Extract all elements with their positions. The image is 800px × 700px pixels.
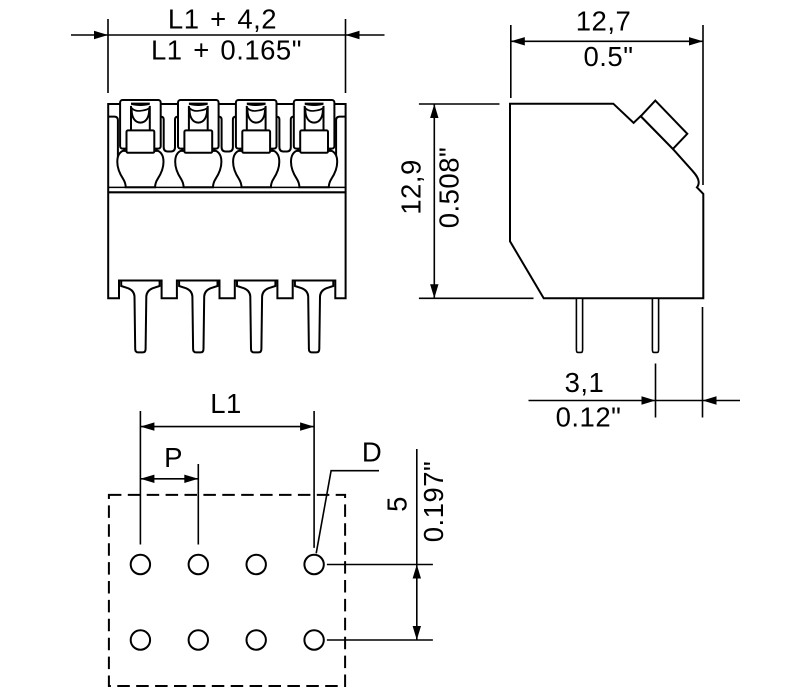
tower 2 <box>178 100 219 149</box>
valley 1-2 <box>161 117 178 152</box>
spring wave 3 <box>247 108 266 111</box>
dim P ext right <box>197 464 199 545</box>
spring wave 1 <box>131 108 150 111</box>
clamp slot black band 2 <box>189 103 208 106</box>
arrow 12,9 bottom <box>430 284 438 298</box>
actuation button <box>641 101 688 149</box>
hole B4 <box>304 630 323 649</box>
arrow 3,1 right <box>703 396 717 404</box>
dim 5 ext row2 <box>327 639 433 641</box>
separation line B <box>108 191 345 193</box>
pole 3 <box>233 100 279 352</box>
dim L1 line <box>140 426 314 428</box>
dim L1+4,2 ext right <box>345 19 347 93</box>
hole B3 <box>247 630 266 649</box>
arrow L1+4,2 right <box>346 31 360 39</box>
arrow 12,7 left <box>511 37 525 45</box>
svg-text:L1: L1 <box>210 388 242 419</box>
pcb outline dashed <box>109 495 345 686</box>
post inner edges 2 <box>189 106 208 130</box>
valley left end <box>108 117 118 158</box>
arrow 3,1 left <box>642 396 656 404</box>
post bottom steps 4 <box>297 149 331 152</box>
pin mount 1 <box>121 281 159 353</box>
svg-text:0.5": 0.5" <box>584 41 634 72</box>
dim L1+4,2 ext left <box>107 19 109 93</box>
side body outline <box>510 104 703 299</box>
clamp U curve 1 <box>132 110 150 123</box>
clamp slot black band 3 <box>247 103 266 106</box>
clamp U curve 4 <box>305 110 323 123</box>
hole A4 <box>304 555 323 574</box>
hole B1 <box>131 630 150 649</box>
dim L1+4,2 line <box>71 34 385 36</box>
pole 1 <box>117 100 163 352</box>
svg-text:L1 + 0.165": L1 + 0.165" <box>151 35 302 66</box>
chest 1 <box>126 130 154 152</box>
separation line A <box>108 186 345 188</box>
dim 12,7 ext left <box>510 25 512 98</box>
vase 1 <box>117 151 163 187</box>
hole A3 <box>247 555 266 574</box>
arrow 12,9 top <box>430 104 438 118</box>
spring wave 2 <box>189 108 208 111</box>
vase 4 <box>291 151 337 187</box>
spring wave 4 <box>305 108 324 111</box>
pin mount 2 <box>179 281 217 353</box>
valley 3-4 <box>276 117 293 152</box>
pin mount 3 <box>237 281 275 353</box>
svg-text:L1 + 4,2: L1 + 4,2 <box>168 4 277 35</box>
svg-text:P: P <box>164 442 183 473</box>
arrow 5 top <box>413 565 421 579</box>
dim 3,1 ext pin <box>655 364 657 418</box>
valley right end <box>336 117 346 158</box>
front body outline <box>108 104 345 298</box>
pin mount 4 <box>295 281 333 353</box>
clamp slot black band 1 <box>131 103 150 106</box>
post bottom steps 2 <box>181 149 215 152</box>
dim P line <box>140 478 198 480</box>
arrow 5 bottom <box>413 626 421 640</box>
pole 4 <box>291 100 337 352</box>
clamp U curve 2 <box>190 110 208 123</box>
dim 3,1 line <box>529 400 741 402</box>
svg-text:3,1: 3,1 <box>565 367 605 398</box>
svg-text:D: D <box>362 437 382 468</box>
svg-text:0.197": 0.197" <box>418 461 449 543</box>
dim 5 line <box>416 449 418 640</box>
vase 3 <box>233 151 279 187</box>
post bottom steps 3 <box>239 149 273 152</box>
dim 12,7 ext right <box>702 25 704 185</box>
vase 2 <box>175 151 221 187</box>
chest 4 <box>300 130 328 152</box>
clamp slot black band 4 <box>305 103 324 106</box>
arrow 12,7 right <box>689 37 703 45</box>
side pin 2 <box>652 298 658 352</box>
side pin 1 <box>576 298 582 352</box>
chest 2 <box>184 130 212 152</box>
svg-text:5: 5 <box>382 496 413 512</box>
arrow P left <box>140 475 154 483</box>
post inner edges 1 <box>131 106 150 130</box>
post inner edges 4 <box>305 106 324 130</box>
tower 4 <box>294 100 335 149</box>
dim 12,9 ext bottom <box>419 297 534 299</box>
post inner edges 3 <box>247 106 266 130</box>
dim 12,9 ext top <box>419 103 500 105</box>
dim 12,9 line <box>433 104 435 298</box>
dim L1 ext right <box>313 411 315 548</box>
arrow L1 right <box>300 422 314 430</box>
valley 2-3 <box>219 117 236 152</box>
chest 3 <box>242 130 270 152</box>
dim L1 ext left <box>139 411 141 545</box>
arrow L1+4,2 left <box>94 31 108 39</box>
dim 3,1 ext edge <box>702 307 704 418</box>
hole A1 <box>131 555 150 574</box>
svg-text:0.508": 0.508" <box>434 147 465 229</box>
tower 3 <box>236 100 277 149</box>
hole A2 <box>189 555 208 574</box>
dim 5 ext row1 <box>327 564 433 566</box>
arrow L1 left <box>140 422 154 430</box>
post bottom steps 1 <box>123 149 157 152</box>
pole 2 <box>175 100 221 352</box>
svg-text:0.12": 0.12" <box>556 402 622 433</box>
clamp U curve 3 <box>247 110 265 123</box>
tower 1 <box>120 100 161 149</box>
dim 12,7 line <box>511 40 703 42</box>
arrow P right <box>184 475 198 483</box>
leader D <box>316 471 379 554</box>
hole B2 <box>189 630 208 649</box>
svg-text:12,9: 12,9 <box>396 159 427 215</box>
svg-text:12,7: 12,7 <box>576 6 632 37</box>
